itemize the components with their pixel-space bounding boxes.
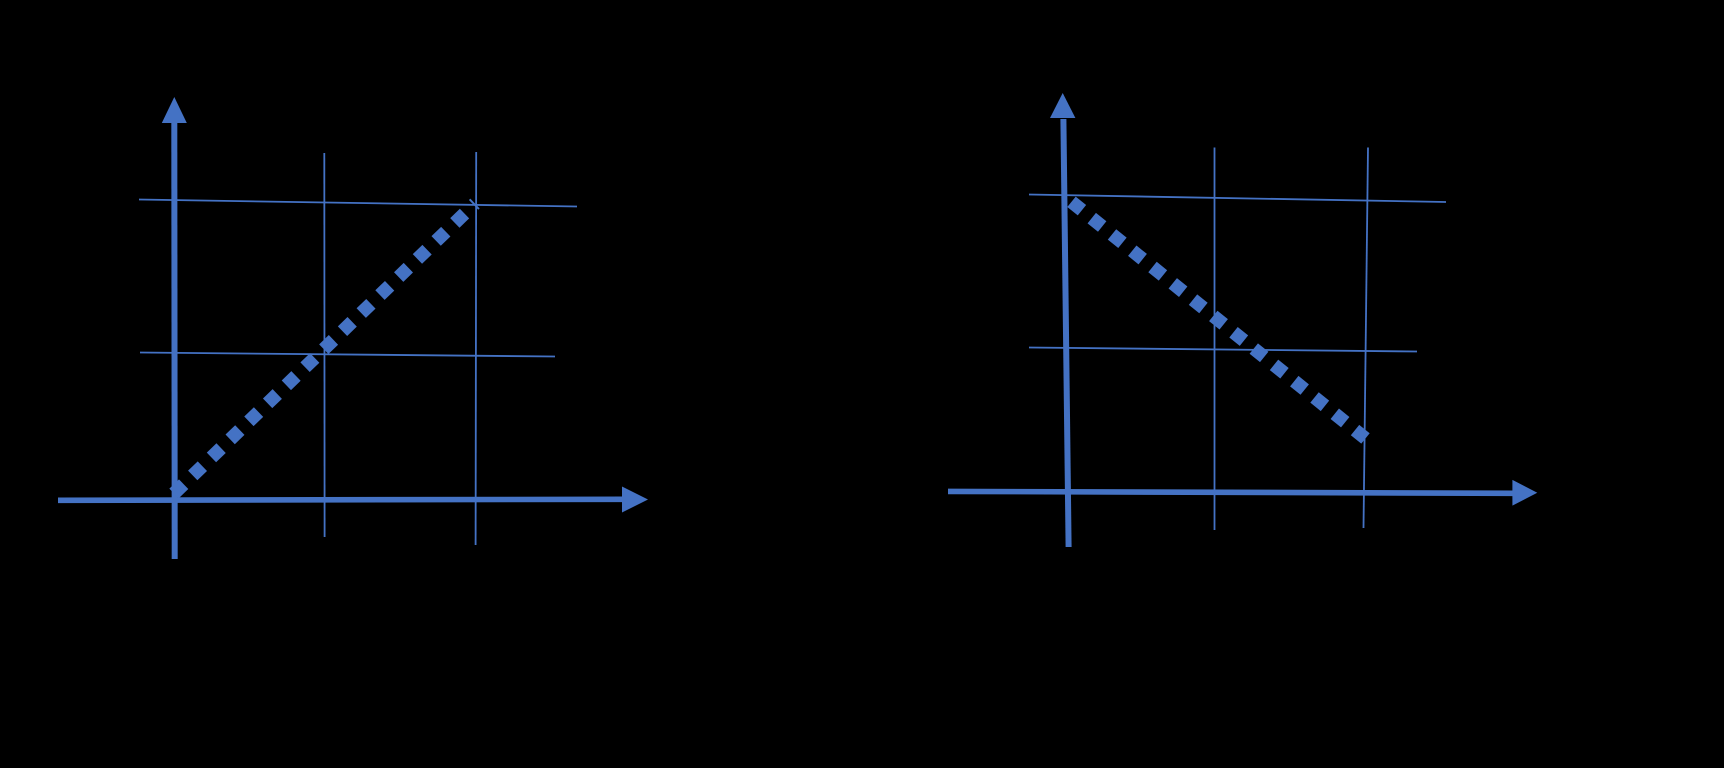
right plot: y-axis shaft — [1063, 119, 1068, 547]
left plot: vertical grid line 2 — [475, 152, 478, 545]
left plot: horizontal grid line 1 — [139, 200, 577, 207]
left plot: horizontal grid line 2 — [140, 353, 555, 357]
right plot: vertical grid line 2 — [1364, 148, 1369, 529]
right plot: vertical grid line 1 — [1214, 148, 1216, 531]
left plot: vertical grid line 1 — [323, 153, 325, 537]
right plot: horizontal grid line 1 — [1029, 195, 1446, 203]
right plot: x-axis shaft — [948, 491, 1513, 493]
right plot: horizontal grid line 2 — [1029, 348, 1417, 352]
right plot: y-axis arrowhead — [1050, 93, 1075, 118]
left plot: y-axis arrowhead — [162, 97, 187, 123]
left plot: y-axis shaft — [171, 119, 177, 559]
right plot: dashed diagonal line (square dots) — [1072, 202, 1369, 441]
left plot: x-axis shaft — [58, 499, 623, 500]
right plot: x-axis arrowhead — [1512, 480, 1537, 506]
left plot: x-axis arrowhead — [622, 487, 648, 513]
left plot: dashed diagonal line (square dots) — [174, 204, 475, 494]
